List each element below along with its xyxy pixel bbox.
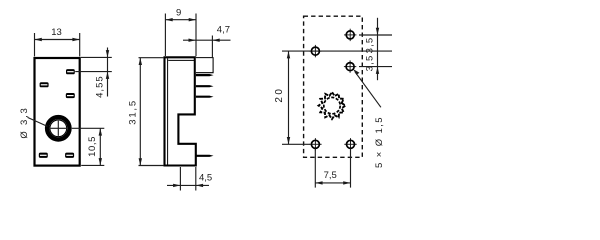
- centre cross of hole: [51, 121, 66, 136]
- inner plate line: [167, 58, 169, 164]
- hole top right: [344, 29, 356, 41]
- dimension 9: [165, 14, 196, 57]
- hole bottom left: [309, 138, 321, 150]
- slot (left column): [40, 82, 49, 87]
- knurled shaft opening (inner dashed circle): [324, 97, 340, 113]
- top-right tab: [196, 58, 213, 73]
- dimension 3,5 / 3,5: [377, 18, 379, 80]
- slot (bottom left): [39, 153, 48, 158]
- hole bottom right: [344, 138, 356, 150]
- dimension 10,5: [72, 128, 105, 165]
- hole inner circle: [50, 120, 67, 137]
- dimension 4,7: [183, 36, 231, 58]
- dimension 13: [35, 33, 80, 56]
- body outline side view: [165, 57, 196, 165]
- dimension 31,5: [139, 58, 165, 166]
- extension line top row: [359, 34, 392, 36]
- pin 3: [196, 96, 214, 98]
- hole ring (bushing): [47, 117, 69, 139]
- hole left middle: [309, 45, 321, 57]
- dimension 4,5: [167, 167, 209, 191]
- hole right third: [344, 60, 356, 72]
- slot (right column second): [66, 93, 75, 98]
- slot (right column top): [66, 69, 75, 74]
- svg-text:3,5: 3,5: [365, 37, 376, 54]
- svg-text:20: 20: [274, 87, 285, 103]
- pin 4 (bottom): [196, 155, 214, 157]
- body outline front view: [35, 58, 80, 166]
- dashed outline: [304, 16, 363, 157]
- pin 2: [196, 85, 214, 87]
- svg-text:9: 9: [176, 7, 181, 18]
- svg-text:31,5: 31,5: [127, 99, 138, 125]
- centre line bottom row: [282, 143, 310, 145]
- svg-text:13: 13: [51, 27, 62, 38]
- inner top line: [168, 59, 194, 61]
- svg-text:5 × Ø 1,5: 5 × Ø 1,5: [374, 116, 385, 168]
- dimension 7,5: [315, 149, 350, 188]
- svg-text:7,5: 7,5: [324, 170, 337, 181]
- svg-text:4,5: 4,5: [199, 173, 212, 184]
- knurled shaft opening (toothed outer circle): [319, 92, 346, 119]
- svg-text:10,5: 10,5: [87, 136, 98, 157]
- svg-text:4,7: 4,7: [217, 25, 230, 36]
- dimension 4,55: [75, 48, 112, 97]
- svg-text:4,55: 4,55: [94, 75, 105, 98]
- svg-text:3,5: 3,5: [365, 54, 376, 71]
- svg-text:Ø 3,3: Ø 3,3: [19, 106, 30, 138]
- pin 1: [196, 74, 214, 76]
- slot (bottom right): [65, 153, 74, 158]
- dimension 20: [288, 51, 290, 144]
- extension line third row: [359, 66, 392, 68]
- centre line middle row: [282, 50, 392, 52]
